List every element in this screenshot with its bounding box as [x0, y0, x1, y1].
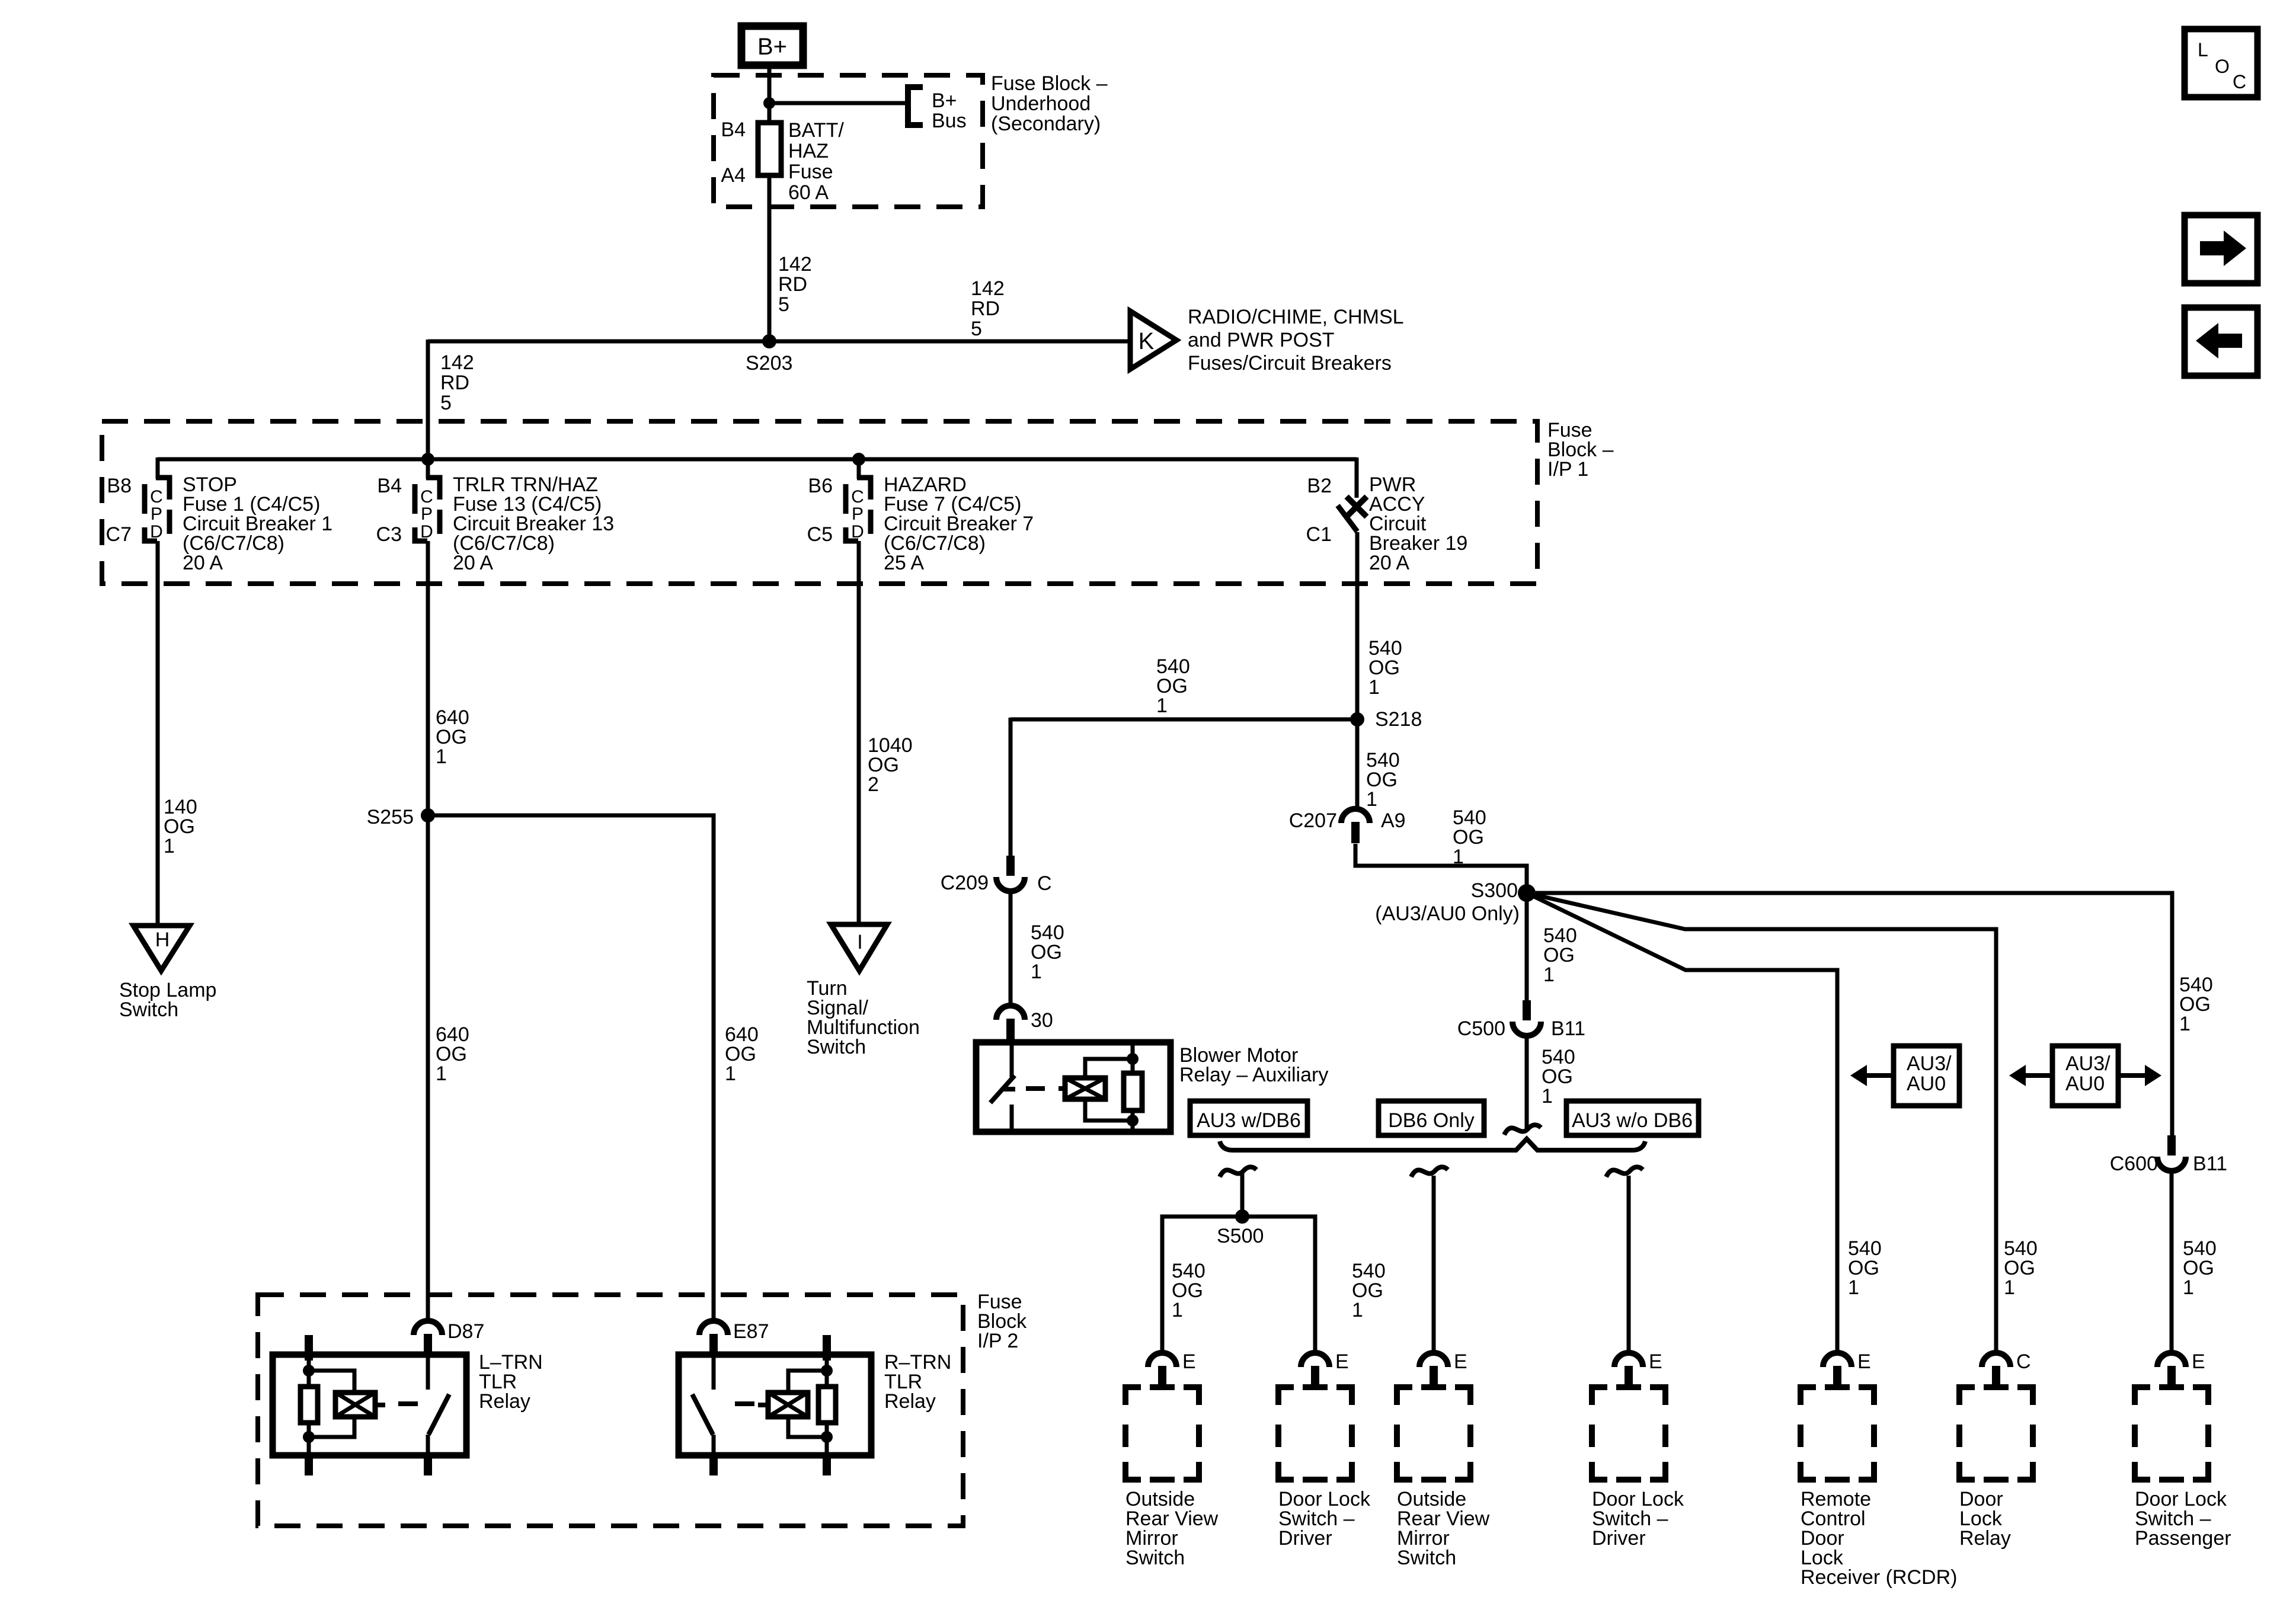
circuit breaker CPD (HAZARD Fuse 7) [857, 478, 871, 500]
switch blade [692, 1394, 713, 1435]
wire C600 down [2170, 1170, 2174, 1354]
svg-text:A9: A9 [1381, 809, 1406, 832]
svg-text:B4: B4 [377, 475, 402, 497]
relay resistor [818, 1387, 836, 1423]
svg-text:1: 1 [725, 1062, 736, 1085]
connector C500 [1523, 1000, 1531, 1020]
node at B+ bus tap [763, 97, 775, 109]
svg-text:25 A: 25 A [884, 552, 924, 574]
switch blade [428, 1394, 449, 1435]
svg-text:1: 1 [1031, 961, 1042, 983]
relay resistor [1124, 1073, 1142, 1110]
svg-text:Receiver (RCDR): Receiver (RCDR) [1801, 1566, 1957, 1589]
svg-text:P: P [421, 504, 433, 524]
svg-text:S218: S218 [1375, 708, 1422, 731]
splice S255 [421, 808, 435, 822]
coil loop [788, 1371, 827, 1393]
svg-text:5: 5 [440, 392, 452, 414]
svg-text:C7: C7 [106, 523, 132, 546]
svg-text:C: C [2016, 1350, 2031, 1373]
svg-text:C1: C1 [1306, 523, 1332, 546]
component dashed box at x=1961 [1125, 1387, 1199, 1480]
node TRLR column [421, 453, 434, 466]
svg-text:1: 1 [1366, 788, 1377, 811]
svg-text:E: E [2192, 1350, 2205, 1373]
relay switch blade [990, 1076, 1015, 1103]
svg-text:C3: C3 [376, 523, 402, 546]
svg-text:C: C [1037, 872, 1052, 895]
svg-text:60 A: 60 A [788, 181, 829, 204]
svg-text:S203: S203 [746, 352, 792, 375]
svg-text:P: P [852, 504, 864, 524]
off-page connector H [133, 926, 190, 971]
svg-text:Passenger: Passenger [2135, 1527, 2231, 1550]
node resistor top [821, 1365, 833, 1377]
connector pin E at x=3664 [2157, 1353, 2186, 1367]
wire S218 to C209 branch [1011, 718, 1357, 722]
coil to resistor loop [1085, 1059, 1133, 1078]
svg-text:E: E [1182, 1350, 1196, 1373]
svg-text:1: 1 [2004, 1276, 2015, 1299]
relay pin stub top-right [823, 1335, 831, 1361]
splice S500 [1235, 1209, 1249, 1224]
svg-text:1: 1 [1543, 964, 1555, 986]
wire S255 branch [428, 815, 714, 1322]
LOC reference box [2185, 29, 2257, 97]
wire C207 to S300 [1355, 844, 1527, 895]
switch lower contact [712, 1435, 716, 1455]
off-page connector I [831, 924, 887, 971]
wire B+ down to S203 [768, 65, 772, 343]
wire S300 line c to RCDR column [1527, 893, 1837, 1354]
relay switch lower contact [1010, 1105, 1014, 1132]
svg-text:S300: S300 [1471, 879, 1518, 902]
svg-text:L: L [2198, 39, 2208, 60]
resistor stubs [1131, 1042, 1135, 1073]
svg-text:E: E [1335, 1350, 1349, 1373]
svg-text:Bus: Bus [932, 110, 967, 132]
wire trlr column top [426, 459, 430, 479]
node resistor bottom [821, 1431, 833, 1443]
wire stop column to H [156, 541, 160, 927]
switch fixed contact [712, 1355, 716, 1390]
connector C207 [1341, 809, 1370, 823]
relay link dashes [1026, 1086, 1067, 1091]
fuse block I/P 2 dashed box [258, 1295, 963, 1526]
splice S300 [1518, 884, 1536, 902]
svg-text:C600: C600 [2110, 1153, 2158, 1175]
svg-text:AU3/: AU3/ [2065, 1052, 2110, 1075]
B+ battery terminal box [741, 26, 803, 65]
svg-text:142: 142 [440, 351, 474, 374]
wire breaker 19 down to S218 [1355, 532, 1360, 721]
svg-text:RADIO/CHIME, CHMSL: RADIO/CHIME, CHMSL [1188, 306, 1404, 328]
inner feed bus [158, 457, 1357, 462]
connector D87 [414, 1321, 442, 1335]
svg-text:Relay – Auxiliary: Relay – Auxiliary [1179, 1064, 1328, 1086]
circuit breaker CPD (TRLR TRN/HAZ Fuse 13) [426, 478, 440, 500]
svg-text:20 A: 20 A [1369, 552, 1409, 574]
wire S300 line a to passenger column [1527, 893, 2172, 1137]
breaker 19 blade [1338, 505, 1357, 532]
splice S218 [1350, 712, 1364, 726]
B+ bus terminal bracket [908, 87, 923, 125]
connector pin E at x=2219 [1301, 1353, 1329, 1367]
svg-text:1: 1 [164, 835, 175, 857]
svg-text:1: 1 [436, 745, 447, 768]
R-TRN TLR relay box [679, 1355, 871, 1455]
svg-text:1: 1 [1368, 676, 1380, 699]
svg-text:1: 1 [2179, 1013, 2191, 1035]
svg-text:1: 1 [436, 1062, 447, 1085]
svg-text:1: 1 [1172, 1299, 1183, 1321]
svg-text:Switch: Switch [1125, 1547, 1185, 1569]
wire stop column top [156, 457, 160, 479]
wire hazard column top [857, 459, 861, 479]
svg-text:1: 1 [1453, 846, 1464, 868]
relay switch fixed contact [1010, 1042, 1014, 1077]
circuit breaker CPD (STOP Fuse 1) [156, 478, 170, 500]
relay pin stub bottom-right [424, 1455, 432, 1475]
connector pin E at x=1961 [1148, 1353, 1176, 1367]
squiggle drop 3 [1606, 1167, 1643, 1177]
svg-text:Relay: Relay [884, 1390, 936, 1413]
svg-text:1: 1 [1352, 1299, 1363, 1321]
svg-text:1: 1 [1848, 1276, 1859, 1299]
connector pin E at x=3100 [1823, 1353, 1851, 1367]
fuse block underhood dashed box [714, 75, 983, 207]
svg-text:B+: B+ [932, 89, 957, 112]
connector C600 [2167, 1135, 2176, 1156]
node coil/resistor top [1127, 1053, 1139, 1065]
squiggle at feed wire [1504, 1125, 1541, 1135]
relay pin stub bottom-left [709, 1455, 718, 1475]
svg-text:Fuse Block –: Fuse Block – [991, 72, 1108, 95]
svg-text:B11: B11 [2193, 1153, 2227, 1175]
svg-text:S255: S255 [367, 806, 414, 828]
svg-text:AU0: AU0 [2065, 1073, 2105, 1095]
svg-text:AU3 w/DB6: AU3 w/DB6 [1197, 1109, 1301, 1132]
option box DB6 Only [1379, 1101, 1484, 1135]
component dashed box at x=2748 [1592, 1387, 1665, 1480]
svg-text:20 A: 20 A [183, 552, 223, 574]
svg-text:Switch: Switch [1397, 1547, 1456, 1569]
wire branch down to C209 [1009, 718, 1013, 857]
node resistor top [303, 1365, 315, 1377]
svg-text:Relay: Relay [479, 1390, 530, 1413]
svg-text:B8: B8 [107, 475, 132, 497]
node HAZARD column [852, 453, 865, 466]
component dashed box at x=2419 [1397, 1387, 1470, 1480]
svg-text:RD: RD [778, 273, 807, 296]
svg-text:P: P [151, 504, 162, 524]
svg-text:AU0: AU0 [1907, 1073, 1946, 1095]
svg-text:1: 1 [1542, 1085, 1553, 1108]
svg-text:E: E [1454, 1350, 1467, 1373]
svg-text:C: C [2233, 71, 2246, 92]
relay pin wire [307, 1361, 311, 1388]
option box AU3 w/DB6 [1190, 1101, 1307, 1135]
svg-text:O: O [2215, 56, 2230, 77]
relay resistor [300, 1387, 318, 1423]
svg-text:E87: E87 [733, 1320, 769, 1343]
page arrow right icon [2185, 215, 2257, 283]
fuse BATT/HAZ 60A [758, 123, 781, 175]
wire elbow down into IP1 [426, 340, 430, 461]
connector C209 [1006, 856, 1015, 876]
svg-text:Switch: Switch [119, 998, 178, 1021]
svg-text:B6: B6 [808, 475, 833, 497]
wire pwr accy elbow [1355, 457, 1359, 498]
breaker 19 contact X [1347, 497, 1367, 517]
svg-text:AU3 w/o DB6: AU3 w/o DB6 [1572, 1109, 1693, 1132]
node coil/resistor bottom [1127, 1115, 1139, 1126]
svg-text:C5: C5 [807, 523, 833, 546]
wire TRLR column down to D87 [426, 541, 430, 1322]
svg-text:I: I [857, 931, 862, 953]
svg-text:142: 142 [778, 253, 812, 276]
svg-text:C500: C500 [1457, 1017, 1505, 1040]
splice S203 [762, 334, 776, 348]
svg-text:D: D [420, 522, 433, 542]
option box AU3 w/o DB6 [1566, 1101, 1699, 1135]
svg-text:2: 2 [868, 773, 879, 796]
svg-text:20 A: 20 A [453, 552, 493, 574]
wire S300 down to C500 [1525, 893, 1529, 1001]
svg-text:AU3/: AU3/ [1907, 1052, 1952, 1075]
svg-text:1: 1 [1156, 694, 1168, 717]
component dashed box at x=3368 [1959, 1387, 2033, 1480]
wire drop DB6 only [1432, 1176, 1436, 1354]
svg-text:Relay: Relay [1959, 1527, 2011, 1550]
svg-text:B+: B+ [757, 34, 787, 60]
coil loop [309, 1371, 354, 1393]
relay coil [768, 1393, 808, 1417]
svg-text:I/P 2: I/P 2 [977, 1330, 1018, 1352]
wire C209 down to relay 30 pin [1009, 890, 1013, 1007]
coil lead [758, 1403, 768, 1407]
svg-text:H: H [155, 929, 170, 951]
svg-text:Underhood: Underhood [991, 92, 1091, 115]
link dash [735, 1401, 754, 1406]
component dashed box at x=3100 [1801, 1387, 1874, 1480]
svg-text:S500: S500 [1217, 1225, 1264, 1247]
svg-text:D87: D87 [447, 1320, 484, 1343]
svg-text:and PWR POST: and PWR POST [1188, 329, 1335, 351]
svg-text:DB6 Only: DB6 Only [1388, 1109, 1475, 1132]
svg-text:B11: B11 [1551, 1017, 1585, 1040]
relay switch contact tick [1004, 1087, 1015, 1092]
svg-text:B4: B4 [721, 119, 746, 141]
svg-text:HAZ: HAZ [788, 140, 829, 162]
svg-text:5: 5 [778, 293, 789, 316]
relay coil [1065, 1078, 1105, 1099]
svg-text:RD: RD [971, 297, 1000, 320]
S500 bus [1162, 1217, 1315, 1354]
relay pin stub top-left [305, 1335, 313, 1361]
switch fixed contact [426, 1355, 430, 1390]
squiggle drop 2 [1411, 1167, 1448, 1177]
connector pin E at x=2748 [1614, 1353, 1643, 1367]
wire to B+ bus [769, 101, 907, 105]
fuse block I/P 1 dashed box [102, 421, 1537, 584]
wire drop AU3 w/o DB6 [1627, 1176, 1631, 1354]
page arrow left icon [2185, 308, 2257, 376]
option brace bus [1220, 1139, 1645, 1150]
relay coil [335, 1393, 375, 1417]
svg-text:142: 142 [971, 277, 1005, 300]
svg-text:D: D [150, 522, 163, 542]
svg-text:RD: RD [440, 372, 469, 394]
svg-text:(Secondary): (Secondary) [991, 113, 1101, 135]
svg-text:C207: C207 [1289, 809, 1337, 832]
svg-text:(AU3/AU0 Only): (AU3/AU0 Only) [1375, 902, 1520, 925]
connector pin C at x=3368 [1982, 1353, 2010, 1367]
component dashed box at x=3664 [2135, 1387, 2208, 1480]
svg-text:30: 30 [1031, 1009, 1053, 1032]
svg-text:Driver: Driver [1278, 1527, 1332, 1550]
squiggle drop 1 [1220, 1167, 1256, 1177]
node resistor bottom [303, 1431, 315, 1443]
component dashed box at x=2219 [1278, 1387, 1352, 1480]
blower motor relay auxiliary box [976, 1042, 1171, 1132]
off-page connector K [1130, 311, 1176, 369]
option tag AU3/AU0 right [2009, 1046, 2161, 1106]
connector pin 30 [996, 1006, 1025, 1020]
svg-text:Fuses/Circuit Breakers: Fuses/Circuit Breakers [1188, 352, 1392, 375]
option tag AU3/AU0 left [1850, 1046, 1959, 1106]
coil lead [375, 1403, 385, 1407]
svg-text:Switch: Switch [807, 1036, 866, 1058]
wire hazard column to I [857, 541, 861, 926]
wire C500 down to option brace [1525, 1035, 1529, 1129]
svg-text:A4: A4 [721, 164, 746, 187]
svg-text:5: 5 [971, 318, 982, 340]
L-TRN TLR relay box [273, 1355, 466, 1455]
svg-text:Driver: Driver [1592, 1527, 1646, 1550]
svg-text:E: E [1649, 1350, 1662, 1373]
switch lower contact [426, 1435, 430, 1455]
svg-text:BATT/: BATT/ [788, 119, 844, 142]
connector pin E at x=2419 [1419, 1353, 1448, 1367]
svg-text:B2: B2 [1307, 475, 1332, 497]
wire S300 line b to door lock relay column [1527, 893, 1996, 1354]
link dash [398, 1401, 418, 1406]
svg-text:I/P 1: I/P 1 [1547, 458, 1588, 481]
svg-text:1: 1 [2183, 1276, 2194, 1299]
wire drop to S500 [1240, 1172, 1245, 1218]
svg-text:C209: C209 [941, 872, 989, 894]
main bus wire [428, 340, 1131, 344]
relay pin stub bottom-left [305, 1455, 313, 1475]
svg-text:Fuse: Fuse [788, 161, 833, 183]
svg-text:E: E [1857, 1350, 1871, 1373]
relay pin stub bottom-right [823, 1455, 831, 1475]
wire S218 down to C207 [1355, 718, 1360, 810]
connector E87 [699, 1321, 728, 1335]
svg-text:D: D [851, 522, 864, 542]
svg-text:K: K [1139, 328, 1155, 354]
